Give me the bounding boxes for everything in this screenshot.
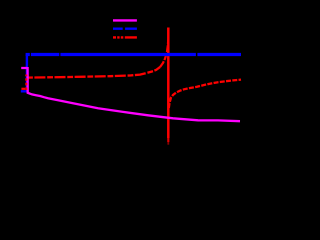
magenta curve start stub [21,67,27,69]
legend blue sample [113,28,137,30]
magenta curve vertical drop and decay [28,67,240,121]
blue curve vertical rise [26,55,28,92]
legend red sample [113,36,137,38]
blue horizontal line segment 1 [26,53,30,56]
legend magenta sample [113,19,137,21]
red curve left branch dashed flat part [27,67,160,78]
red asymptote fading tail [167,138,169,142]
red dashes on left start column [25,75,27,91]
blue horizontal line segment 4 [197,53,241,56]
blue curve start stub [21,90,27,92]
blue horizontal line segment 3 [60,53,196,56]
blue horizontal line segment 2 [31,53,59,56]
red curve start stub [21,88,25,90]
red vertical asymptote [167,28,170,139]
red curve left branch steep rise into asymptote [160,40,168,67]
red curve right branch [169,80,241,108]
